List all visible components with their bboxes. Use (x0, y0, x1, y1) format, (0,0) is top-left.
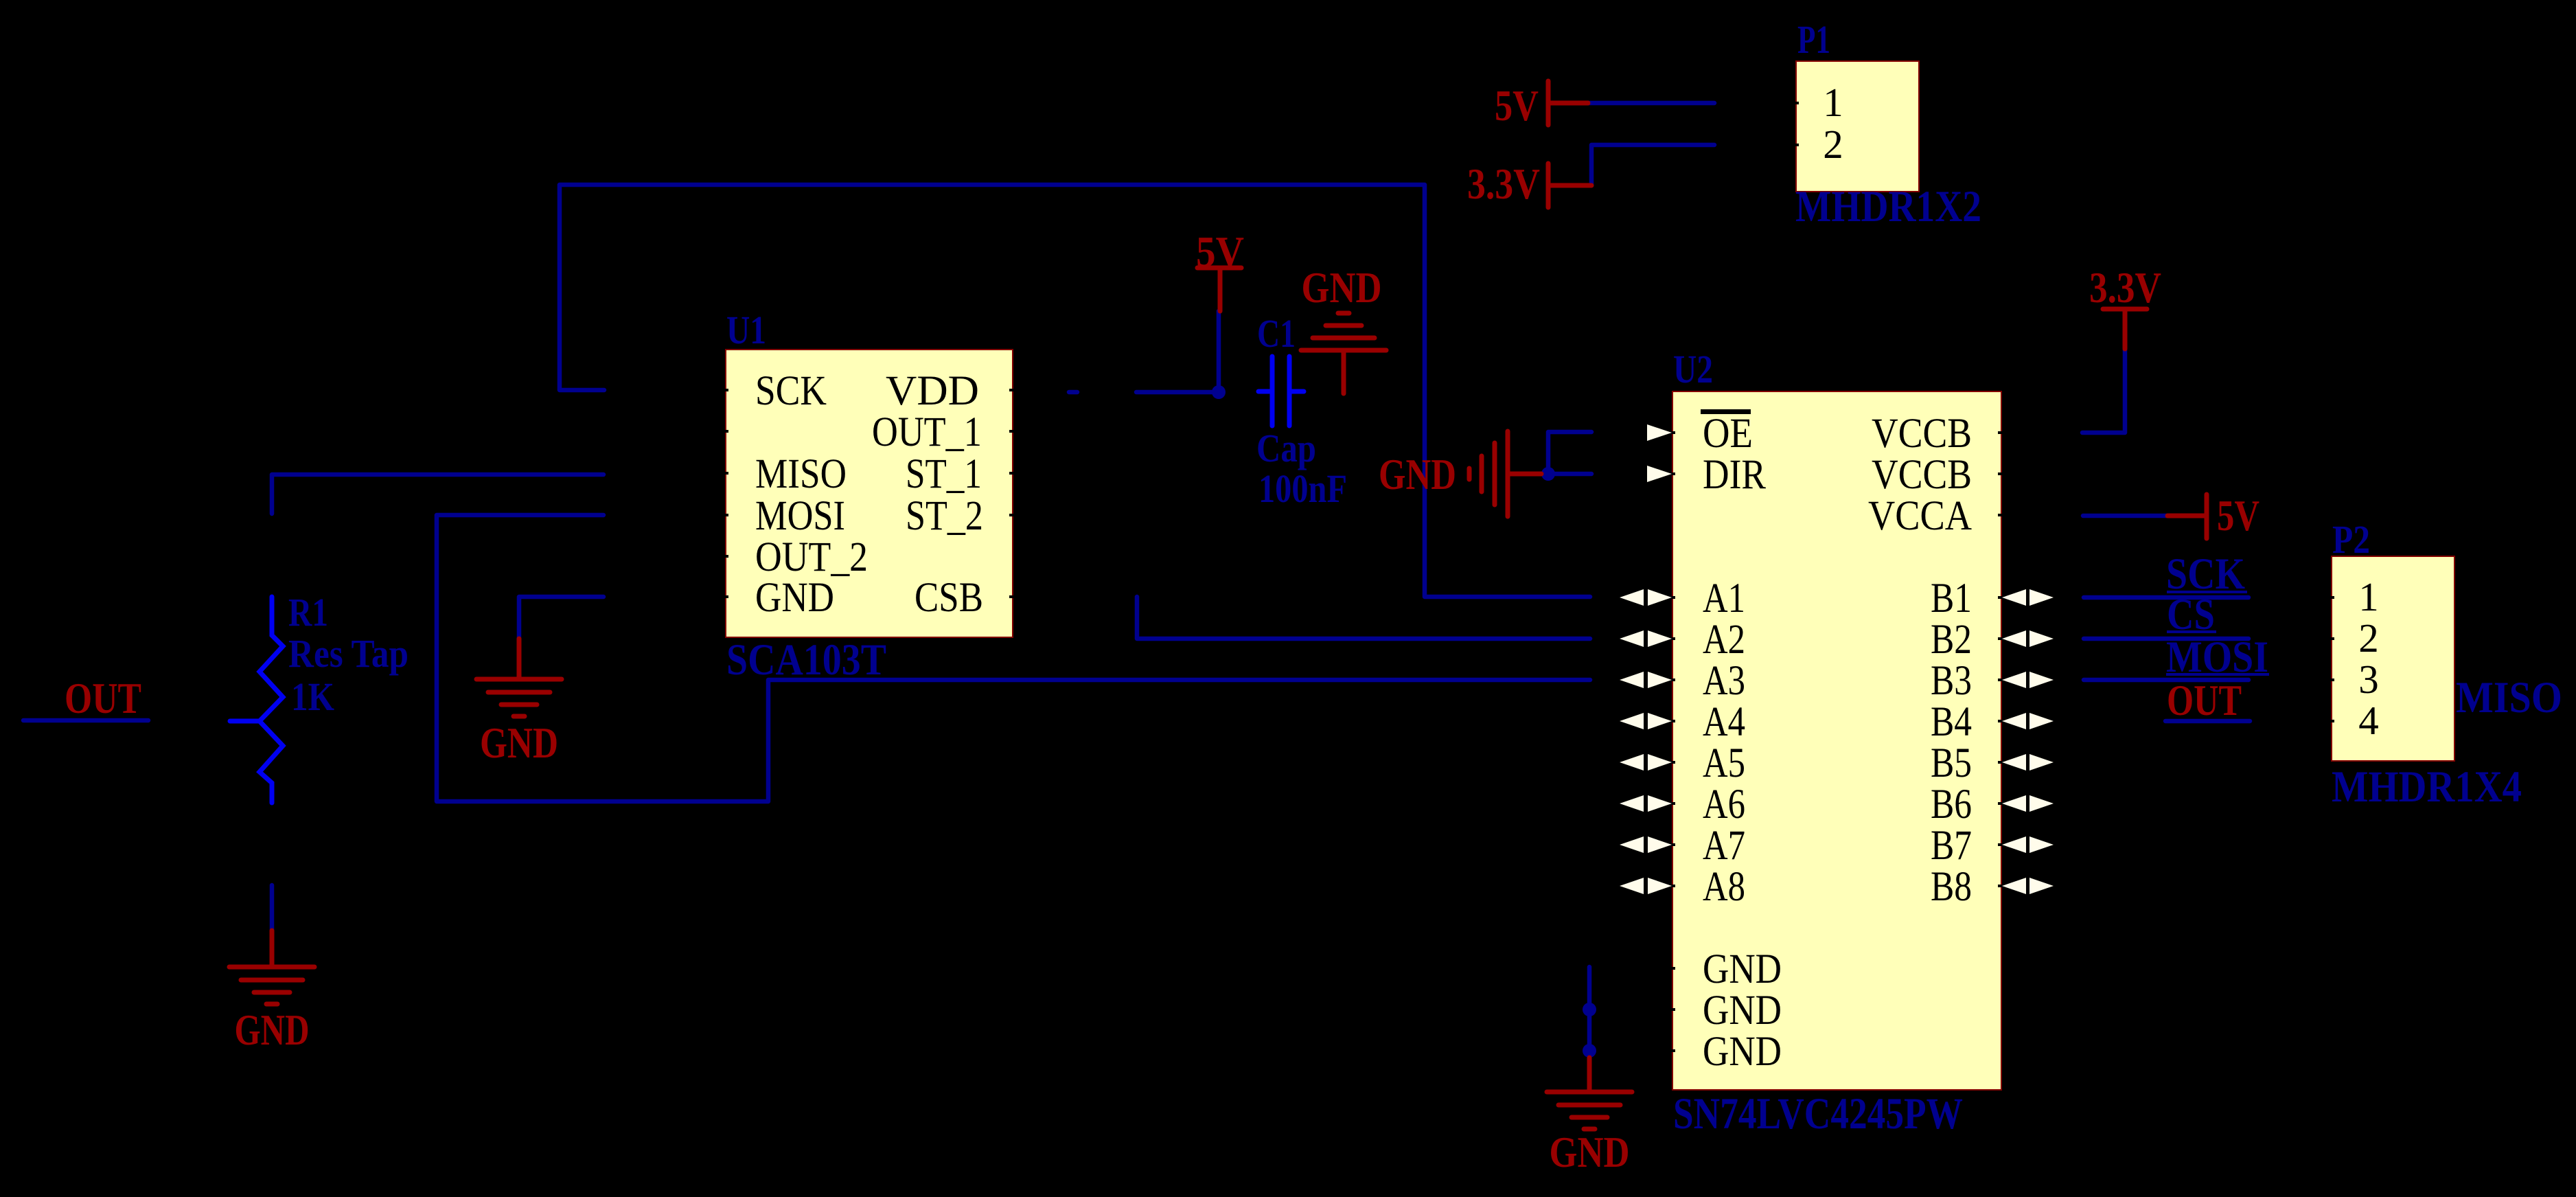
svg-text:2: 2 (1823, 122, 1843, 167)
svg-text:B7: B7 (1931, 823, 1972, 869)
svg-text:VCCB: VCCB (1872, 452, 1972, 498)
svg-text:B2: B2 (1931, 617, 1972, 663)
svg-text:SCK: SCK (755, 368, 827, 414)
svg-text:Cap: Cap (1256, 426, 1316, 470)
svg-text:1: 1 (2358, 574, 2379, 619)
svg-text:5V: 5V (1495, 82, 1539, 130)
svg-text:B3: B3 (1931, 658, 1972, 704)
svg-text:B5: B5 (1931, 740, 1972, 786)
svg-text:VCCA: VCCA (1868, 493, 1972, 539)
svg-text:GND: GND (235, 1006, 310, 1054)
svg-text:GND: GND (480, 719, 558, 767)
svg-text:U1: U1 (726, 308, 766, 352)
svg-text:MOSI: MOSI (755, 493, 845, 539)
svg-text:GND: GND (755, 575, 834, 621)
svg-text:VCCB: VCCB (1872, 411, 1972, 457)
svg-text:MISO: MISO (2456, 673, 2562, 722)
svg-text:3: 3 (2358, 657, 2379, 702)
svg-text:MISO: MISO (755, 451, 847, 497)
svg-text:SN74LVC4245PW: SN74LVC4245PW (1673, 1089, 1963, 1139)
svg-text:A3: A3 (1703, 658, 1745, 704)
svg-text:1K: 1K (291, 674, 334, 719)
svg-text:5V: 5V (2217, 492, 2259, 540)
svg-text:GND: GND (1379, 451, 1456, 499)
svg-text:MHDR1X4: MHDR1X4 (2332, 762, 2522, 812)
svg-text:P1: P1 (1797, 17, 1830, 62)
svg-text:VDD: VDD (886, 368, 979, 414)
svg-text:2: 2 (2358, 615, 2379, 661)
svg-text:P2: P2 (2332, 517, 2370, 562)
svg-text:A6: A6 (1703, 782, 1745, 828)
svg-text:A5: A5 (1703, 740, 1745, 786)
svg-text:OUT_2: OUT_2 (755, 534, 868, 580)
svg-text:OUT: OUT (65, 674, 141, 722)
svg-text:1: 1 (1823, 80, 1843, 125)
svg-text:A8: A8 (1703, 864, 1745, 910)
svg-text:GND: GND (1703, 1029, 1782, 1075)
svg-text:A4: A4 (1703, 699, 1745, 745)
svg-text:3.3V: 3.3V (2089, 264, 2161, 312)
svg-text:DIR: DIR (1703, 452, 1766, 498)
svg-text:B1: B1 (1931, 575, 1972, 622)
svg-text:A7: A7 (1703, 823, 1745, 869)
svg-text:Res Tap: Res Tap (288, 631, 409, 676)
svg-text:CSB: CSB (915, 575, 983, 621)
svg-text:3.3V: 3.3V (1467, 160, 1540, 208)
svg-text:A1: A1 (1703, 575, 1745, 622)
svg-text:100nF: 100nF (1258, 466, 1347, 511)
svg-text:OUT_1: OUT_1 (872, 409, 982, 455)
svg-text:SCA103T: SCA103T (726, 635, 886, 685)
svg-text:GND: GND (1302, 264, 1382, 312)
svg-text:GND: GND (1550, 1128, 1630, 1176)
svg-text:C1: C1 (1257, 311, 1296, 356)
svg-text:OUT: OUT (2167, 676, 2242, 725)
svg-text:GND: GND (1703, 988, 1782, 1034)
svg-text:U2: U2 (1673, 347, 1713, 391)
svg-text:4: 4 (2358, 698, 2379, 743)
svg-text:B4: B4 (1931, 699, 1972, 745)
svg-text:ST_1: ST_1 (906, 451, 982, 497)
svg-text:A2: A2 (1703, 617, 1745, 663)
svg-text:GND: GND (1703, 946, 1782, 992)
svg-text:MHDR1X2: MHDR1X2 (1795, 182, 1981, 231)
svg-text:B6: B6 (1931, 782, 1972, 828)
svg-text:R1: R1 (288, 590, 328, 635)
svg-text:B8: B8 (1931, 864, 1972, 910)
svg-text:5V: 5V (1196, 228, 1244, 276)
svg-text:ST_2: ST_2 (906, 493, 983, 539)
svg-text:OE: OE (1703, 411, 1753, 457)
